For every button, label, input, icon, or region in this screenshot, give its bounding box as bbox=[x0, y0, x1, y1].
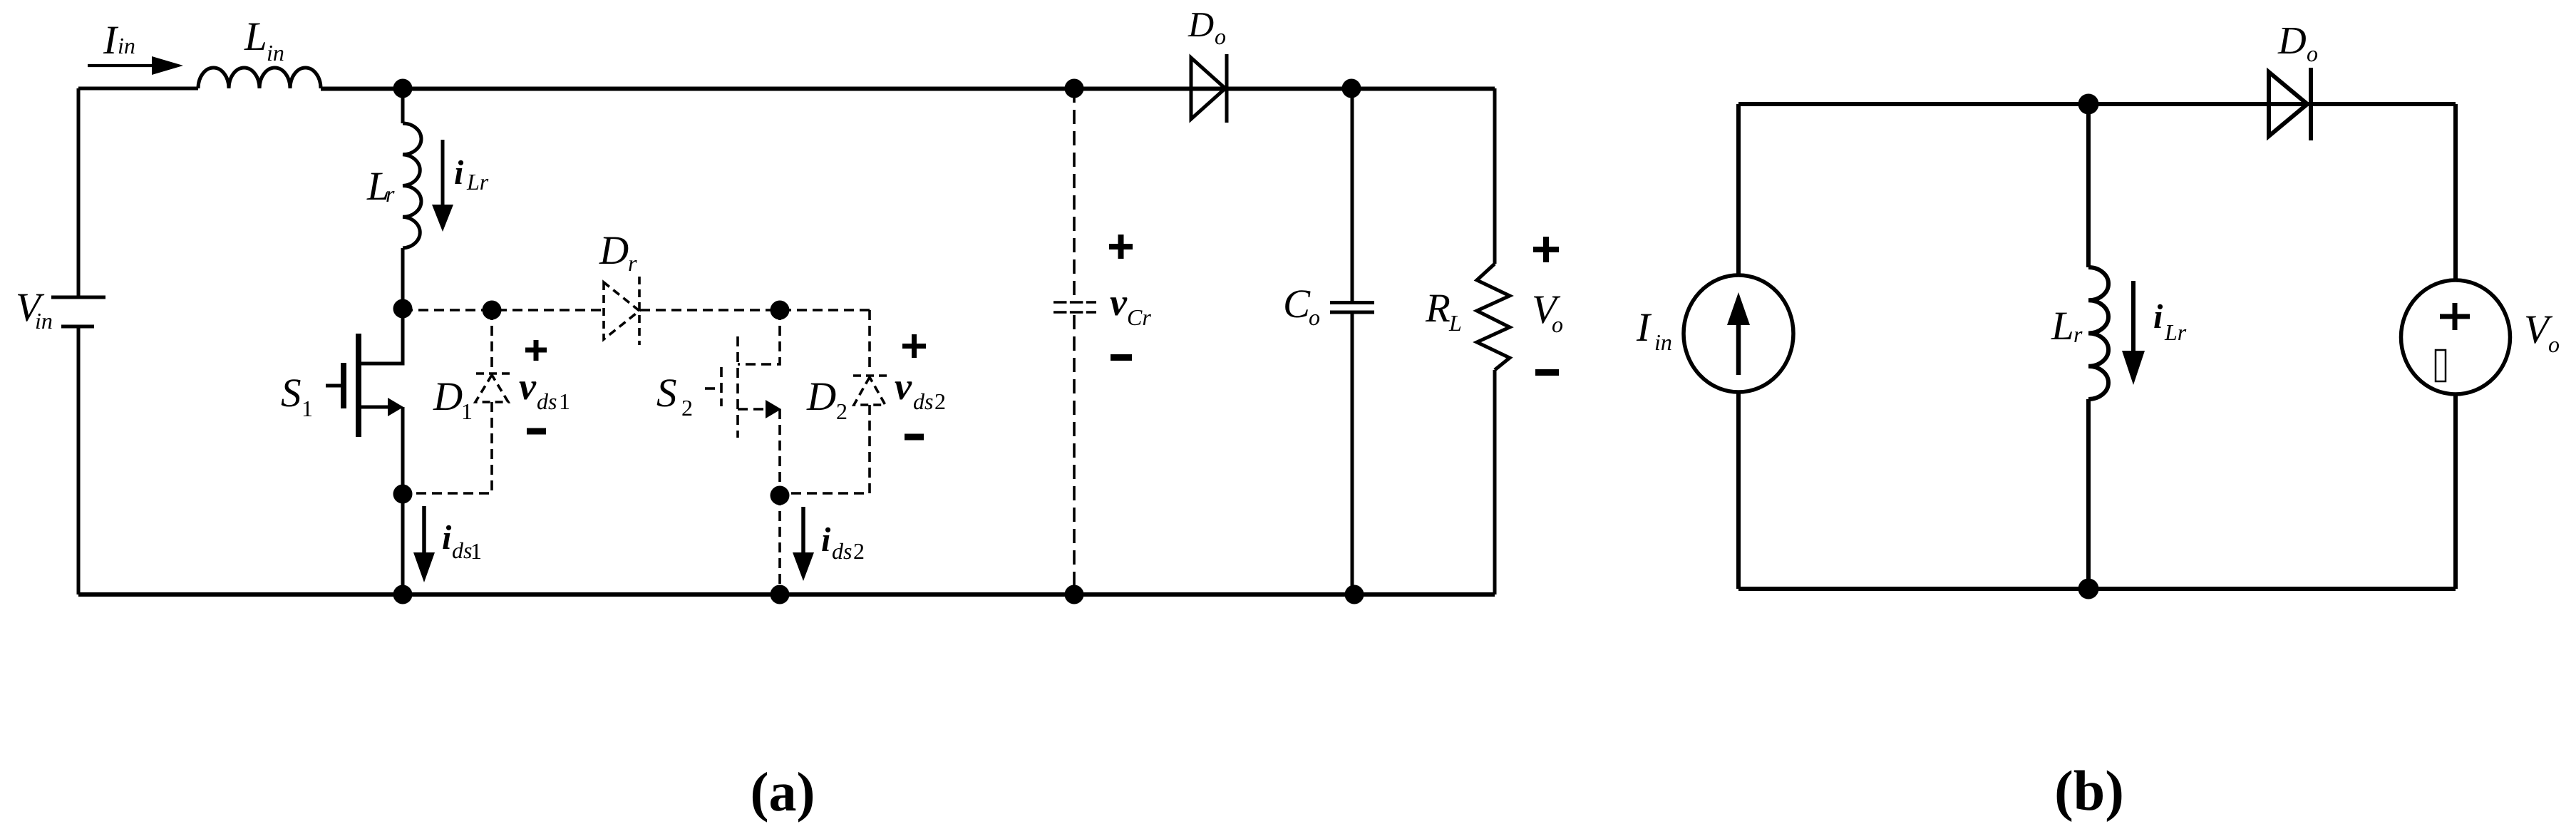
svg-text:C: C bbox=[1283, 282, 1311, 326]
svg-text:D: D bbox=[433, 374, 463, 419]
svg-text:2: 2 bbox=[836, 398, 847, 424]
svg-text:(a): (a) bbox=[751, 761, 815, 823]
svg-text:2: 2 bbox=[853, 538, 865, 564]
svg-text:i: i bbox=[2153, 298, 2163, 336]
svg-text:1: 1 bbox=[302, 396, 313, 421]
svg-text:in: in bbox=[35, 308, 53, 334]
svg-text:L: L bbox=[1448, 310, 1462, 336]
svg-text:o: o bbox=[1215, 24, 1226, 49]
svg-text:o: o bbox=[1309, 304, 1320, 330]
svg-text:1: 1 bbox=[470, 538, 482, 564]
svg-text:L: L bbox=[244, 14, 267, 59]
svg-text:(b): (b) bbox=[2054, 760, 2124, 823]
svg-text:D: D bbox=[2277, 19, 2307, 62]
svg-text:R: R bbox=[1425, 286, 1451, 331]
svg-text:Lr: Lr bbox=[2164, 319, 2187, 345]
svg-text:D: D bbox=[806, 374, 836, 419]
svg-text:Lr: Lr bbox=[466, 169, 489, 195]
svg-text:2: 2 bbox=[934, 388, 946, 414]
svg-text:1: 1 bbox=[559, 388, 570, 414]
svg-text:i: i bbox=[442, 519, 452, 557]
svg-text:r: r bbox=[386, 181, 395, 207]
svg-text:in: in bbox=[118, 33, 135, 58]
svg-text:i: i bbox=[454, 154, 464, 192]
svg-text:o: o bbox=[1552, 312, 1563, 337]
svg-text:ds: ds bbox=[913, 388, 933, 414]
svg-text:L: L bbox=[2051, 304, 2074, 349]
svg-text:D: D bbox=[599, 228, 629, 273]
svg-text:ds: ds bbox=[832, 538, 852, 564]
svg-text:D: D bbox=[1187, 4, 1214, 44]
svg-text:v: v bbox=[1110, 281, 1128, 324]
svg-text:r: r bbox=[628, 250, 637, 276]
svg-text:ds: ds bbox=[452, 537, 472, 563]
svg-text:S: S bbox=[656, 371, 677, 416]
svg-text:ds: ds bbox=[537, 388, 557, 414]
svg-text:i: i bbox=[821, 521, 831, 559]
svg-text:1: 1 bbox=[461, 398, 473, 424]
svg-text:S: S bbox=[281, 371, 302, 416]
svg-text:I: I bbox=[103, 18, 119, 63]
svg-text:I: I bbox=[1636, 305, 1652, 350]
svg-text:in: in bbox=[1654, 329, 1672, 355]
svg-text:Cr: Cr bbox=[1127, 304, 1151, 330]
svg-text:v: v bbox=[519, 365, 537, 408]
svg-text:in: in bbox=[267, 40, 284, 66]
svg-text:r: r bbox=[2073, 321, 2083, 347]
svg-text:2: 2 bbox=[681, 395, 693, 421]
svg-text:v: v bbox=[895, 365, 912, 408]
svg-text:o: o bbox=[2548, 331, 2560, 357]
svg-text:o: o bbox=[2307, 41, 2318, 66]
